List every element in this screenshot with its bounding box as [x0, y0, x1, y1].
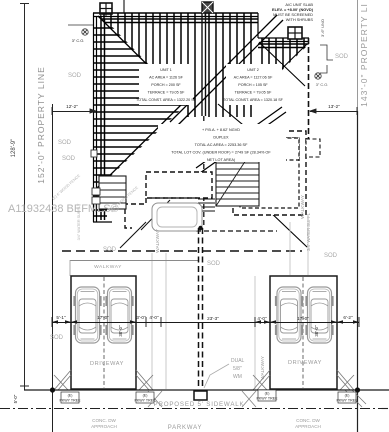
NW hip diagonal: [98, 16, 187, 104]
svg-text:TERRACE = 79.05 SF: TERRACE = 79.05 SF: [235, 91, 273, 95]
svg-text:PKWY TREE: PKWY TREE: [256, 397, 278, 401]
svg-text:APPROACH: APPROACH: [91, 424, 117, 429]
tree box 2: [134, 392, 156, 403]
main ridge diagonal band: [170, 15, 277, 122]
svg-text:30'-0": 30'-0": [314, 325, 319, 337]
svg-text:WM: WM: [233, 374, 242, 380]
svg-text:143'-0" PROPERTY LI: 143'-0" PROPERTY LI: [359, 3, 369, 107]
right unit top vertical hatch: [258, 38, 309, 90]
sidewalk bottom dash-dot line: [0, 408, 389, 410]
north slope vertical rafter hatch left unit: [98, 13, 258, 117]
property corner dot left: [50, 387, 55, 392]
svg-text:SOD: SOD: [207, 261, 221, 267]
svg-text:UNIT 2: UNIT 2: [247, 68, 259, 72]
svg-text:17'-0": 17'-0": [97, 315, 109, 320]
dimension arrowheads: [52, 320, 359, 324]
svg-text:TERRACE = 79.05 SF: TERRACE = 79.05 SF: [148, 91, 186, 95]
left eave lower band short hatch: [93, 186, 107, 220]
walkway edge line: [70, 260, 198, 262]
party wall dashed continuation: [203, 116, 205, 228]
right driveway: [270, 276, 337, 389]
svg-text:SOD: SOD: [58, 140, 72, 146]
svg-text:SOD: SOD: [50, 335, 64, 341]
small step block right of courtyard: [198, 199, 215, 211]
left unit stair block: [99, 176, 126, 209]
A/C unit slab note: [272, 2, 314, 22]
svg-text:17'-0": 17'-0": [297, 316, 309, 321]
right unit stair block: [216, 139, 259, 206]
left cleanout symbol: [68, 25, 93, 35]
west slope batten tick columns: [101, 13, 105, 190]
car 1: [74, 287, 101, 343]
tree box 1: [59, 392, 81, 403]
right building edge dashed: [308, 38, 310, 139]
SW hip diagonal: [96, 100, 186, 189]
main dimension line: [52, 317, 359, 327]
building top eave lines: [93, 13, 309, 42]
svg-text:DUAL: DUAL: [231, 358, 245, 364]
right cleanout symbol: [315, 73, 321, 79]
left property line: [52, 104, 54, 432]
right property line: [357, 0, 359, 111]
svg-text:3'-6" UNO: 3'-6" UNO: [320, 19, 325, 37]
svg-text:PKWY TREE: PKWY TREE: [59, 399, 81, 403]
approach flare right of right driveway: [337, 370, 366, 407]
left walkway strip: [152, 253, 166, 389]
walkway flare below sidewalk line left: [148, 391, 162, 407]
top center chimney box: [202, 2, 213, 16]
svg-text:DRIVEWAY: DRIVEWAY: [90, 361, 124, 367]
tree box 3: [256, 390, 278, 401]
svg-text:128'-9": 128'-9": [11, 139, 17, 158]
hose bib marks on west wall: [91, 150, 97, 157]
svg-text:PORCH = 105 SF: PORCH = 105 SF: [238, 83, 268, 87]
svg-text:CONC. DW: CONC. DW: [92, 418, 116, 423]
duplex center text block: [158, 124, 286, 162]
svg-text:(E): (E): [265, 392, 270, 396]
right hip diagonals: [259, 42, 305, 86]
12'-2" dimension left: [52, 107, 96, 115]
svg-text:SOD: SOD: [103, 247, 117, 253]
svg-text:PROPOSED 5' SIDEWALK: PROPOSED 5' SIDEWALK: [154, 401, 245, 408]
UNIT 2 text block: [223, 64, 284, 105]
party wall double line: [202, 13, 206, 116]
svg-text:30'-0": 30'-0": [118, 325, 123, 337]
svg-text:A11932438 BEFMLS©: A11932438 BEFMLS©: [8, 203, 119, 215]
svg-text:5'-1": 5'-1": [56, 315, 66, 320]
left dimension line 128'-9": [20, 3, 29, 390]
UNIT 1 text block: [136, 64, 197, 105]
front overhang dashed line: [62, 250, 302, 252]
right driveway centerline dashed: [302, 277, 304, 388]
svg-text:TOTAL CONST. AREA = 1322.20 SF: TOTAL CONST. AREA = 1322.20 SF: [136, 98, 197, 102]
courtyard rounded rects: [152, 203, 202, 231]
right terrace notch dashed: [268, 138, 299, 160]
13'-2" dimension right: [310, 107, 357, 115]
second ridge diagonal band: [196, 107, 282, 168]
svg-text:4'-0": 4'-0": [149, 315, 159, 320]
lower right hip diagonal: [247, 190, 307, 247]
tree box 4: [336, 392, 358, 403]
sidewalk top line: [24, 389, 389, 391]
right AC pad dashed box: [306, 139, 320, 157]
walkway flare below sidewalk line right: [242, 391, 256, 407]
svg-text:23'-3": 23'-3": [207, 316, 219, 321]
svg-text:4'-0": 4'-0": [257, 316, 267, 321]
svg-text:12'-2": 12'-2": [66, 104, 78, 109]
water meter box: [194, 391, 207, 400]
svg-text:APPROACH: APPROACH: [295, 424, 321, 429]
svg-text:(E): (E): [143, 394, 148, 398]
top vent line: [123, 0, 125, 13]
car 4: [306, 287, 333, 343]
SOD labels: [50, 54, 349, 341]
CONC DW APPROACH right: [295, 418, 321, 429]
svg-text:CONC. DW: CONC. DW: [296, 418, 320, 423]
svg-text:3" C.O.: 3" C.O.: [316, 82, 329, 87]
dimension labels: [56, 315, 353, 321]
svg-text:152'-0" PROPERTY LINE: 152'-0" PROPERTY LINE: [36, 66, 46, 183]
svg-text:SOD: SOD: [324, 253, 338, 259]
svg-text:AC AREA = 1126 SF: AC AREA = 1126 SF: [149, 76, 183, 80]
svg-text:5'-0": 5'-0": [13, 394, 18, 403]
svg-text:PKWY TREE: PKWY TREE: [336, 399, 358, 403]
property corner dot right: [355, 387, 360, 392]
porch edge dashed vline: [196, 204, 198, 231]
svg-text:(E): (E): [68, 394, 73, 398]
svg-text:3/4" WATER SUPPL: 3/4" WATER SUPPL: [306, 212, 311, 251]
svg-text:TOTAL AC AREA = 2253.36 SF: TOTAL AC AREA = 2253.36 SF: [195, 143, 248, 147]
car 2: [106, 287, 133, 343]
svg-text:3'-0": 3'-0": [136, 315, 146, 320]
approach flare hatch left of left driveway: [54, 370, 71, 390]
courtyard corner diagonals: [141, 200, 170, 230]
dual water meter line: [199, 228, 203, 391]
DUAL 5/8 WM note: [231, 358, 245, 380]
west slope horizontal rafter hatch: [93, 28, 200, 182]
right footprint jog dashed: [275, 139, 308, 161]
svg-text:SOD: SOD: [68, 73, 82, 79]
right unit SE ridge diagonal: [218, 104, 285, 160]
svg-text:SOD: SOD: [62, 156, 76, 162]
CONC DW APPROACH left: [91, 418, 117, 429]
svg-text:TOTAL CONST. AREA = 1320.18 SF: TOTAL CONST. AREA = 1320.18 SF: [223, 98, 284, 102]
left porch inner dashed: [152, 197, 198, 199]
car 3: [276, 287, 303, 343]
building left eave lines: [93, 13, 112, 222]
water line start dot: [198, 226, 202, 230]
right setback bracket: [320, 45, 333, 73]
right skylight square: [288, 27, 302, 39]
svg-text:6'-2": 6'-2": [343, 315, 353, 320]
svg-text:13'-2": 13'-2": [328, 104, 340, 109]
approach flare right of left driveway: [136, 370, 153, 390]
approach flare left of right driveway: [253, 370, 270, 390]
svg-text:PARKWAY: PARKWAY: [168, 425, 203, 431]
svg-text:3" C.O.: 3" C.O.: [72, 38, 85, 43]
top-left skylight square: [100, 3, 112, 16]
left unit footprint dashed: [146, 172, 212, 198]
right terrace outer dashed box: [233, 131, 306, 215]
svg-text:DRIVEWAY: DRIVEWAY: [288, 360, 322, 366]
svg-text:UNIT 1: UNIT 1: [160, 68, 172, 72]
right walkway strip upper: [255, 222, 308, 389]
left porch dashed step: [125, 198, 146, 228]
svg-text:5/8": 5/8": [233, 366, 242, 372]
right terrace inner dashed box: [240, 138, 299, 208]
svg-text:+ P.B.A. + 8.62' NGVD: + P.B.A. + 8.62' NGVD: [202, 128, 240, 132]
svg-text:NET LOT AREA): NET LOT AREA): [207, 158, 236, 162]
svg-text:AC AREA = 1127.06 SF: AC AREA = 1127.06 SF: [234, 76, 274, 80]
rear porch dashed line: [196, 230, 277, 232]
svg-text:SOD: SOD: [335, 54, 349, 60]
svg-text:WALKWAY: WALKWAY: [155, 228, 161, 253]
left driveway: [71, 276, 136, 389]
left driveway centerline dashed: [103, 277, 105, 388]
svg-text:TOTAL LOT COV. (UNDER ROOF) =: TOTAL LOT COV. (UNDER ROOF) = 2749 SF (2…: [171, 151, 271, 155]
svg-text:DUPLEX: DUPLEX: [213, 136, 229, 140]
svg-text:WALKWAY: WALKWAY: [94, 264, 122, 270]
WM leader line: [204, 364, 229, 388]
svg-text:PORCH = 200 SF: PORCH = 200 SF: [151, 83, 181, 87]
svg-text:WITH SHRUBS: WITH SHRUBS: [286, 17, 314, 22]
svg-text:(E): (E): [345, 394, 350, 398]
